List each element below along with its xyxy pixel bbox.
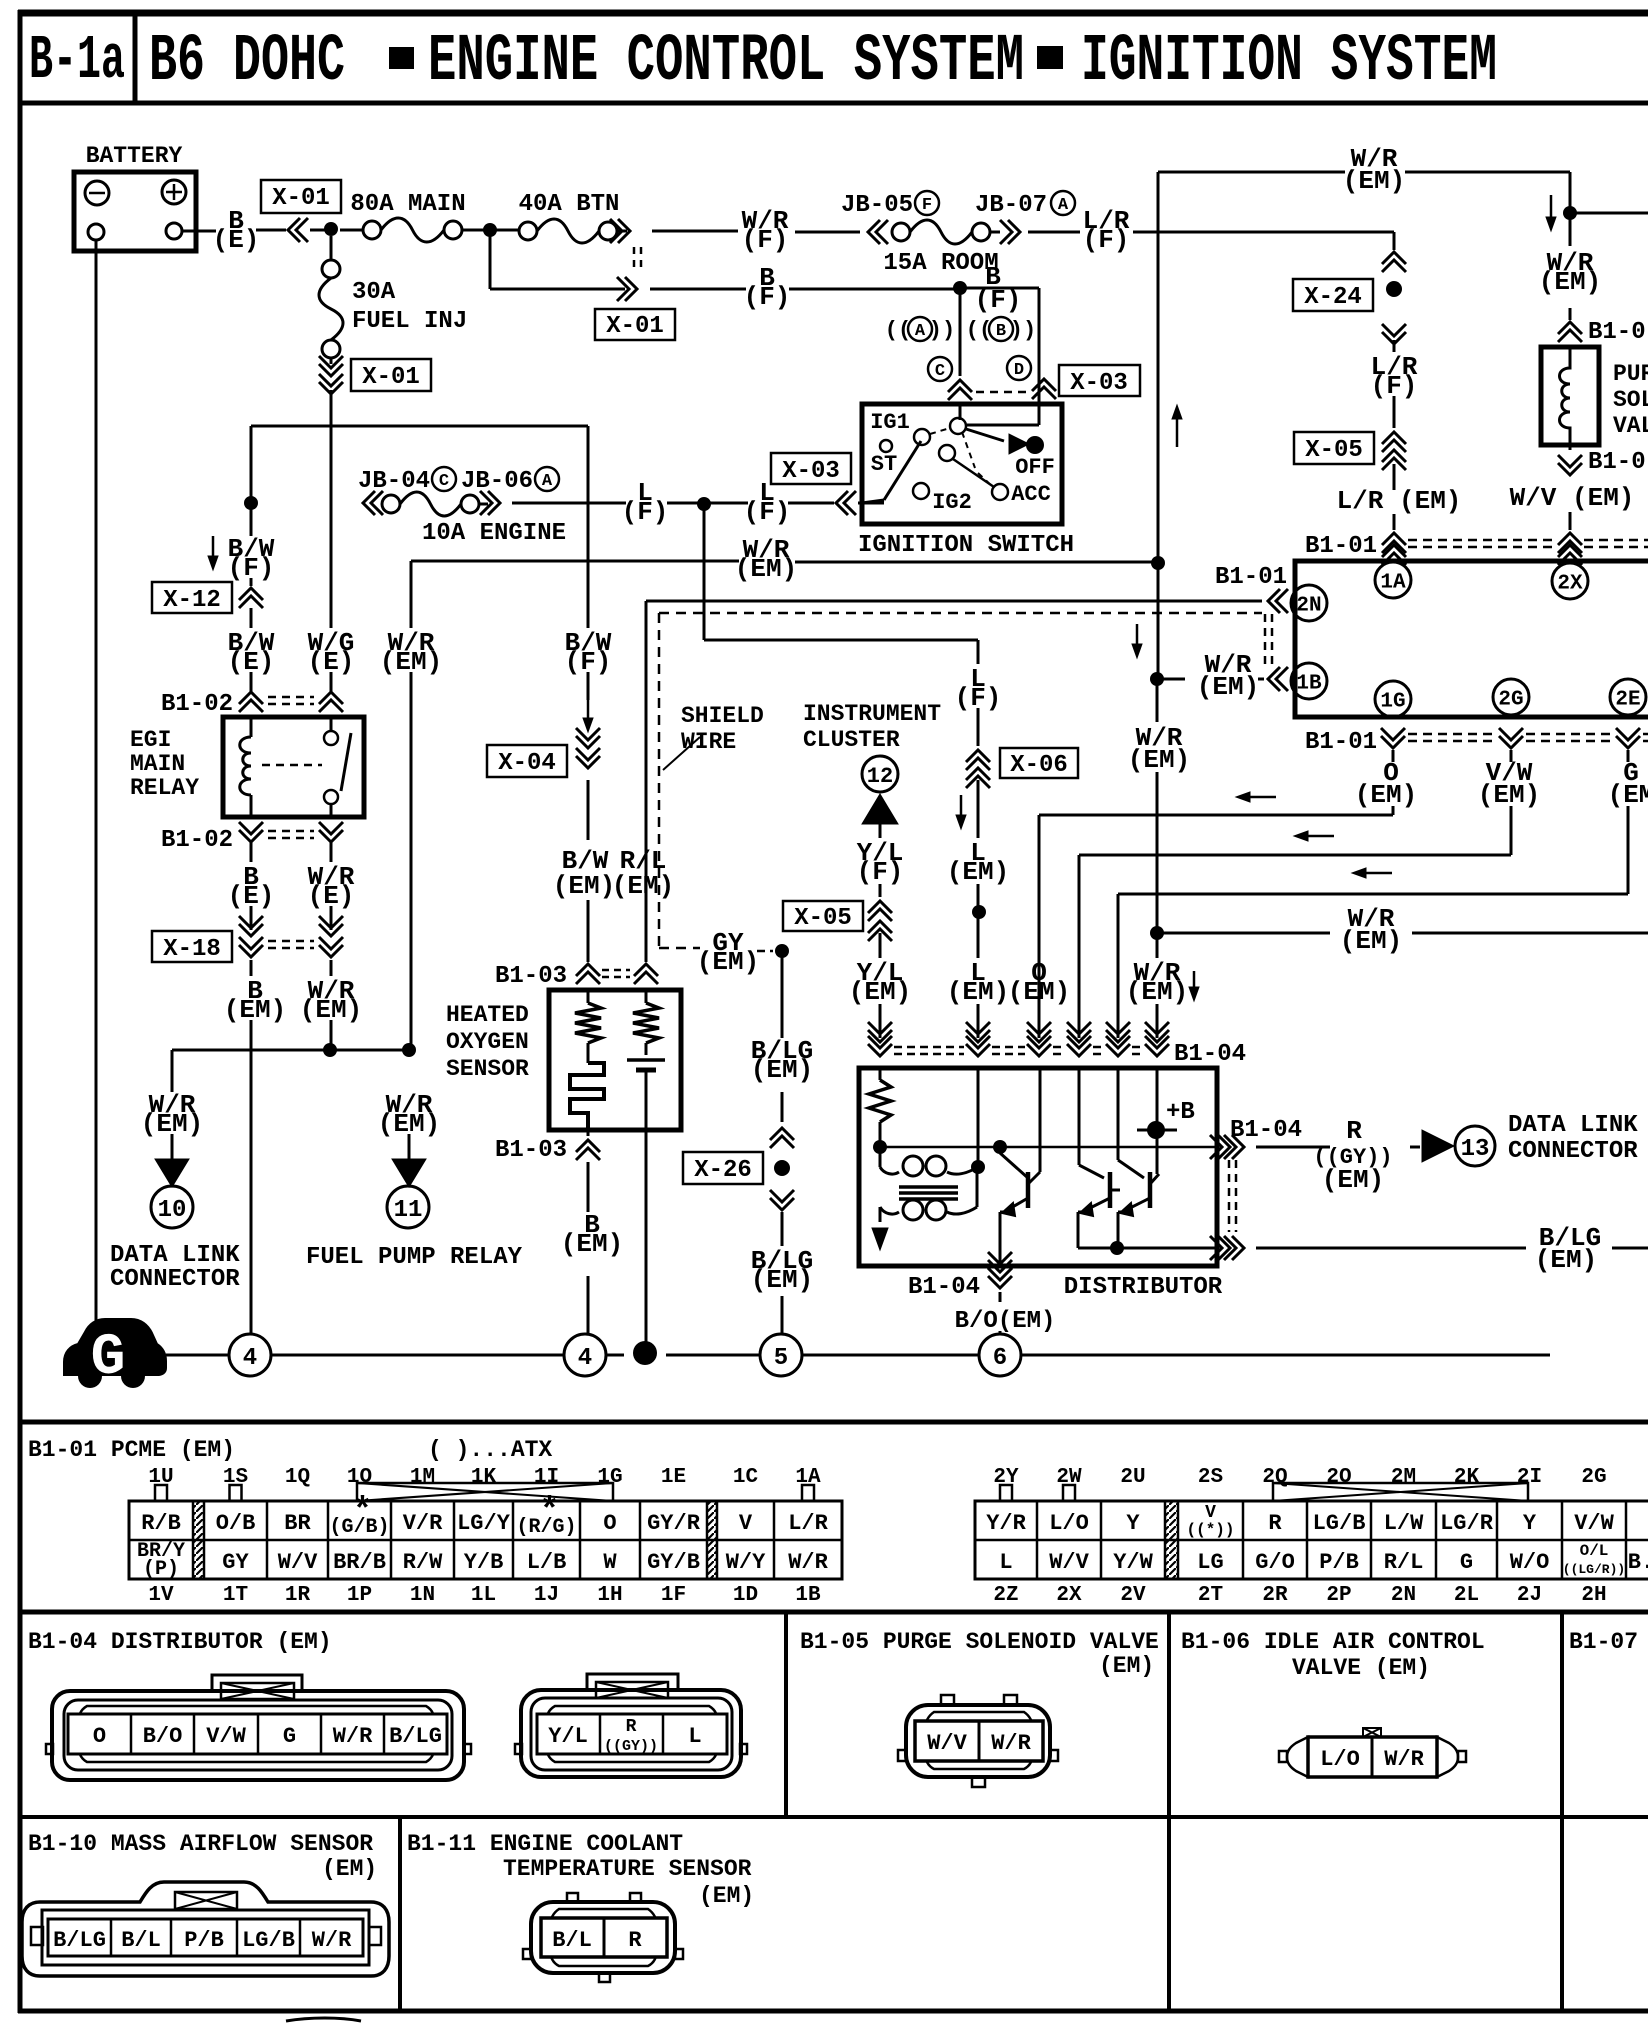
wire R/L(EM) from PCME 2N [612, 601, 1262, 962]
svg-text:6: 6 [993, 1345, 1007, 1372]
junction node distributor bus mid [993, 1140, 1007, 1154]
svg-text:10: 10 [158, 1197, 187, 1224]
svg-text:V/W: V/W [206, 1724, 246, 1749]
svg-text:2G: 2G [1498, 689, 1523, 712]
svg-text:GY/R: GY/R [647, 1511, 701, 1536]
svg-text:1E: 1E [661, 1466, 686, 1489]
wire W/R(EM) top feed [1158, 144, 1570, 231]
pin 2X [1552, 563, 1588, 599]
svg-text:BR/B: BR/B [333, 1550, 386, 1575]
svg-text:X-06: X-06 [1010, 752, 1068, 779]
connector X-18 [152, 916, 343, 963]
svg-text:1R: 1R [285, 1584, 311, 1607]
svg-text:((GY)): ((GY)) [604, 1738, 658, 1755]
svg-text:2P: 2P [1326, 1584, 1351, 1607]
fuse 30A FUEL INJ [319, 236, 467, 358]
title text [149, 25, 1497, 100]
svg-text:(F): (F) [622, 497, 669, 527]
svg-text:1N: 1N [410, 1584, 435, 1607]
svg-text:((LG/R)): ((LG/R)) [1563, 1562, 1625, 1577]
fuse 10A ENGINE JB-04/JB-06 [358, 467, 566, 547]
connector B1-05 arrows lower [1558, 445, 1646, 476]
svg-text:(EM): (EM) [1197, 672, 1259, 702]
svg-text:X-05: X-05 [1305, 437, 1363, 464]
junction node L(EM) [972, 905, 986, 919]
svg-text:B/L: B/L [121, 1928, 161, 1953]
svg-text:OFF: OFF [1015, 455, 1055, 480]
wire B/W(F) to oxygen sensor [565, 561, 612, 732]
svg-text:W/R: W/R [788, 1550, 828, 1575]
svg-text:INSTRUMENT: INSTRUMENT [803, 701, 941, 727]
svg-text:(EM): (EM) [553, 871, 615, 901]
connector X-01 on battery feed [261, 180, 341, 242]
svg-text:C: C [439, 472, 449, 491]
svg-text:2L: 2L [1454, 1584, 1479, 1607]
wire bus rectangle to 10A engine fuse [251, 426, 588, 561]
transistor Q1 igniter [1000, 1068, 1040, 1266]
svg-text:2Q: 2Q [1262, 1466, 1287, 1489]
svg-text:(EM): (EM) [1478, 780, 1540, 810]
transistor Q2 pickup [1078, 1068, 1120, 1248]
svg-text:B/L: B/L [552, 1928, 592, 1953]
distributor internal ground [872, 1228, 888, 1250]
pin 1B [1291, 663, 1327, 699]
connector B1-04 arrows R output [1210, 1117, 1302, 1159]
wire B/LG(EM) shield branch [751, 951, 813, 1122]
svg-text:1I: 1I [534, 1466, 559, 1489]
svg-text:O/B: O/B [216, 1511, 256, 1536]
svg-text:PUR: PUR [1613, 361, 1648, 387]
section header B1-05 PURGE SOLENOID VALVE [800, 1629, 1159, 1679]
battery [74, 143, 196, 251]
svg-text:)): )) [929, 318, 955, 343]
shield wire dashed screen [659, 613, 1262, 977]
svg-text:W/V: W/V [927, 1731, 967, 1756]
svg-text:1T: 1T [223, 1584, 248, 1607]
svg-text:2H: 2H [1581, 1584, 1606, 1607]
svg-text:FUEL PUMP RELAY: FUEL PUMP RELAY [306, 1244, 523, 1271]
svg-text:5: 5 [774, 1345, 788, 1372]
svg-text:G: G [91, 1326, 126, 1391]
connector X-01 label box lower [595, 309, 675, 340]
svg-text:GY: GY [222, 1550, 249, 1575]
node 13 data link connector [1455, 1112, 1638, 1166]
svg-text:B/LG: B/LG [53, 1928, 106, 1953]
connector B1-04 arrows B/LG output [1210, 1236, 1244, 1260]
svg-text:B1-10 MASS AIRFLOW SENSOR: B1-10 MASS AIRFLOW SENSOR [28, 1831, 373, 1857]
wire W/R(EM) vertical from engine bay [380, 561, 442, 1050]
ignition switch connector codes A B C D [885, 317, 1036, 381]
node 10 data link connector [110, 1186, 240, 1293]
junction node top right W/R [1563, 206, 1577, 220]
relay contact [262, 717, 351, 817]
connector B1-01 dashed link top [1305, 533, 1648, 560]
connector B1-01 arrows at 2X [1558, 533, 1582, 565]
svg-text:(EM): (EM) [1099, 1653, 1154, 1679]
svg-text:CONNECTOR: CONNECTOR [1508, 1138, 1638, 1165]
svg-text:JB-07: JB-07 [975, 192, 1047, 219]
svg-text:*: * [352, 1493, 372, 1531]
wire W/R(EM) to PCME 1B [1163, 650, 1288, 702]
ground node 5 [760, 1334, 802, 1376]
section header B1-01 PCME [28, 1437, 552, 1463]
svg-text:V: V [1205, 1503, 1216, 1523]
svg-text:1B: 1B [795, 1584, 821, 1607]
connector B1-01 dashed link at 2N 1B [1265, 614, 1272, 664]
junction node W/R at 1B [1150, 672, 1164, 686]
svg-text:2N: 2N [1391, 1584, 1416, 1607]
svg-text:LG/B: LG/B [1313, 1511, 1366, 1536]
svg-text:11: 11 [394, 1197, 423, 1224]
svg-text:1O: 1O [347, 1466, 372, 1489]
svg-text:D: D [1014, 361, 1024, 380]
svg-text:L/W: L/W [1384, 1511, 1424, 1536]
svg-text:B6 DOHC: B6 DOHC [149, 25, 345, 100]
svg-text:2X: 2X [1056, 1584, 1082, 1607]
svg-text:L: L [688, 1724, 701, 1749]
svg-text:LG/B: LG/B [242, 1928, 295, 1953]
svg-text:X-03: X-03 [1070, 370, 1128, 397]
ground node 6 [979, 1334, 1021, 1376]
svg-text:2O: 2O [1326, 1466, 1351, 1489]
wire W/G to relay [330, 672, 333, 692]
svg-text:JB-05: JB-05 [841, 192, 913, 219]
svg-text:1H: 1H [597, 1584, 622, 1607]
pin 2G [1493, 679, 1529, 715]
wire B/LG inside distributor [1117, 1247, 1217, 1250]
svg-text:X-12: X-12 [163, 587, 221, 614]
svg-text:L: L [999, 1550, 1012, 1575]
relay EGI MAIN RELAY [130, 717, 364, 817]
wire Y/L(F) [857, 824, 904, 897]
svg-text:B-1a: B-1a [29, 26, 125, 96]
svg-text:2G: 2G [1581, 1466, 1606, 1489]
svg-text:(EM): (EM) [1128, 745, 1190, 775]
wire L(EM) to distributor [947, 918, 1009, 1038]
svg-text:B/O(EM): B/O(EM) [955, 1308, 1056, 1335]
ignition switch rotor lines [862, 428, 1029, 503]
svg-text:4: 4 [243, 1345, 257, 1372]
svg-text:B1-02: B1-02 [161, 691, 233, 718]
wire L(EM) into coil node [977, 1068, 980, 1162]
svg-text:IGNITION SWITCH: IGNITION SWITCH [858, 532, 1074, 559]
svg-text:(EM): (EM) [699, 1883, 754, 1909]
purge solenoid valve [1541, 347, 1648, 445]
svg-text:Y/B: Y/B [464, 1550, 504, 1575]
svg-text:(EM): (EM) [697, 947, 759, 977]
svg-text:(EM): (EM) [947, 857, 1009, 887]
svg-text:SHIELD: SHIELD [681, 703, 764, 729]
svg-text:ACC: ACC [1011, 482, 1051, 507]
section divider lines [18, 1422, 1648, 2011]
svg-text:W/R: W/R [333, 1724, 373, 1749]
relay coil [240, 717, 251, 817]
svg-text:WIRE: WIRE [681, 729, 736, 755]
ignition switch contacts [870, 410, 1055, 515]
connector X-05 right [1294, 432, 1406, 470]
svg-text:(EM): (EM) [224, 995, 286, 1025]
shield wire callout [663, 703, 764, 770]
svg-text:X-24: X-24 [1304, 284, 1362, 311]
svg-text:A: A [1058, 196, 1069, 215]
svg-text:LG/R: LG/R [1440, 1511, 1494, 1536]
svg-text:W/Y: W/Y [726, 1550, 766, 1575]
svg-text:W/V (EM): W/V (EM) [1510, 483, 1635, 513]
svg-text:B1-07: B1-07 [1569, 1629, 1638, 1655]
connector drawing B1-04 three pin [515, 1674, 747, 1777]
wire L/R(F) down right side [1382, 232, 1406, 272]
svg-text:( )...ATX: ( )...ATX [428, 1437, 552, 1463]
svg-text:B1-05 PURGE SOLENOID VALVE: B1-05 PURGE SOLENOID VALVE [800, 1629, 1159, 1655]
ground node 4 right [564, 1334, 606, 1376]
svg-text:4: 4 [578, 1345, 592, 1372]
pin 2E [1610, 679, 1646, 715]
junction node 10A feed [244, 496, 258, 510]
wire W/R(EM) from relay to junction [300, 960, 362, 1050]
connector B1-01 arrows below pins [1305, 728, 1648, 756]
instrument cluster label [803, 701, 941, 753]
svg-text:HEATED: HEATED [446, 1002, 529, 1028]
svg-text:B1-03: B1-03 [495, 963, 567, 990]
svg-text:R: R [626, 1717, 637, 1737]
heated oxygen sensor [446, 990, 681, 1130]
svg-text:12: 12 [867, 764, 893, 789]
connector B1-02 lower [161, 822, 343, 854]
svg-text:X-26: X-26 [694, 1157, 752, 1184]
oxygen sensor heater resistor [570, 990, 604, 1130]
svg-text:B1-11 ENGINE COOLANT: B1-11 ENGINE COOLANT [407, 1831, 683, 1857]
connector drawing B1-10 five pin [22, 1882, 389, 1976]
svg-text:(EM): (EM) [612, 871, 674, 901]
connector X-03 label box right [1059, 365, 1140, 397]
junction node at 40A fuse [483, 223, 497, 237]
wire B/LG(EM) to ground bus [751, 1212, 813, 1334]
svg-text:DATA LINK: DATA LINK [1508, 1112, 1638, 1139]
wire W/R(F) [652, 206, 860, 255]
svg-text:SOL: SOL [1613, 387, 1648, 413]
wire L(F) from fuse [512, 478, 699, 527]
svg-text:B1-01: B1-01 [1215, 564, 1287, 591]
wire W/V(EM) [1510, 483, 1635, 530]
svg-text:(EM): (EM) [751, 1055, 813, 1085]
svg-text:GY/B: GY/B [647, 1550, 700, 1575]
oxygen sensor cell resistor and battery symbol [627, 990, 665, 1130]
wire B(E) from relay [228, 842, 275, 930]
svg-text:2U: 2U [1120, 1466, 1145, 1489]
svg-text:LG: LG [1197, 1550, 1223, 1575]
junction node W/R vertical [402, 1043, 416, 1057]
svg-text:V/W: V/W [1574, 1511, 1614, 1536]
svg-text:G: G [1460, 1550, 1473, 1575]
wire B/O(EM) [955, 1292, 1056, 1335]
connector X-01 on fuel inj wire [319, 356, 431, 394]
wire B/W(F) left branch [208, 509, 275, 586]
svg-text:+B: +B [1166, 1099, 1195, 1126]
svg-text:SENSOR: SENSOR [446, 1056, 529, 1082]
svg-text:O/L: O/L [1580, 1542, 1609, 1560]
junction node shield to bus [633, 1341, 657, 1365]
svg-text:O: O [93, 1724, 106, 1749]
svg-text:(F): (F) [1083, 225, 1130, 255]
svg-text:IG1: IG1 [870, 410, 910, 435]
svg-text:L/O: L/O [1049, 1511, 1089, 1536]
svg-text:(P): (P) [143, 1558, 179, 1581]
svg-text:2V: 2V [1120, 1584, 1146, 1607]
svg-text:P/B: P/B [1319, 1550, 1359, 1575]
junction node B(F) at ignition switch [953, 281, 967, 295]
svg-text:L/R: L/R [788, 1511, 828, 1536]
svg-text:(EM: (EM [1608, 780, 1648, 810]
ground bus wire [166, 1354, 1550, 1357]
wire B(F) into ignition switch [960, 262, 1039, 425]
svg-text:TEMPERATURE SENSOR: TEMPERATURE SENSOR [503, 1856, 752, 1882]
svg-text:X-01: X-01 [362, 364, 420, 391]
svg-text:W/R: W/R [1384, 1747, 1424, 1772]
title block B-1a [29, 26, 125, 96]
svg-text:X-01: X-01 [606, 313, 664, 340]
svg-text:DATA LINK: DATA LINK [110, 1242, 240, 1269]
svg-text:(F): (F) [744, 497, 791, 527]
svg-text:R: R [1268, 1511, 1282, 1536]
wire W/R(E) from relay [308, 842, 355, 930]
svg-text:80A MAIN: 80A MAIN [350, 191, 465, 218]
svg-text:(F): (F) [742, 225, 789, 255]
svg-text:B1-04: B1-04 [1230, 1117, 1302, 1144]
svg-text:L/R (EM): L/R (EM) [1337, 486, 1462, 516]
wire L/R(EM) [1337, 464, 1462, 530]
svg-text:W/V: W/V [278, 1550, 318, 1575]
svg-text:B1-0: B1-0 [1588, 449, 1646, 476]
svg-text:(EM): (EM) [1539, 267, 1601, 297]
svg-text:F: F [922, 196, 932, 215]
svg-text:W/O: W/O [1510, 1550, 1550, 1575]
wire W/R(EM) vertical to distributor [1128, 685, 1190, 927]
svg-text:1G: 1G [1380, 691, 1405, 714]
connector drawing B1-11 two pin [523, 1893, 683, 1982]
connector table B1-01 right half [975, 1501, 1648, 1579]
section header B1-10 MASS AIRFLOW SENSOR [28, 1831, 377, 1882]
svg-text:R: R [1346, 1116, 1362, 1146]
connector X-03 arrows at switch [948, 379, 1056, 400]
svg-text:(EM): (EM) [849, 977, 911, 1007]
connector B1-01 arrows at 1A [1382, 533, 1406, 565]
node 11 fuel pump relay [306, 1186, 523, 1271]
svg-text:1V: 1V [148, 1584, 174, 1607]
pin 1G [1375, 681, 1411, 717]
ignition coil [880, 1153, 978, 1222]
pin 1A [1375, 562, 1411, 598]
wire B/LG(EM) output [1256, 1223, 1648, 1275]
svg-text:O: O [603, 1511, 616, 1536]
svg-text:V: V [739, 1511, 753, 1536]
svg-text:W/R: W/R [312, 1928, 352, 1953]
junction node relay W/R [323, 1043, 337, 1057]
svg-text:1A: 1A [1380, 572, 1406, 595]
connector drawing B1-05 two pin [898, 1695, 1058, 1787]
svg-text:A: A [542, 472, 553, 491]
svg-text:R/B: R/B [141, 1511, 181, 1536]
svg-text:RELAY: RELAY [130, 775, 199, 801]
transistor Q3 output [1118, 1068, 1159, 1242]
svg-text:(EM): (EM) [735, 554, 797, 584]
svg-text:JB-06: JB-06 [461, 468, 533, 495]
ignition switch [858, 404, 1074, 559]
svg-text:15A ROOM: 15A ROOM [883, 250, 998, 277]
wire B(EM) [224, 960, 286, 1334]
svg-text:Y: Y [1523, 1511, 1537, 1536]
wire W/R(EM) stub to right edge [1576, 212, 1648, 215]
fuse 40A BTN [496, 191, 627, 243]
svg-text:(F): (F) [857, 857, 904, 887]
svg-text:1Q: 1Q [285, 1466, 310, 1489]
svg-text:Y/R: Y/R [986, 1511, 1026, 1536]
svg-text:X-18: X-18 [163, 936, 221, 963]
distributor box [859, 1068, 1217, 1266]
connector X-24 [1293, 279, 1406, 344]
svg-text:(E): (E) [213, 225, 260, 255]
svg-text:(EM): (EM) [1355, 780, 1417, 810]
svg-text:(EM): (EM) [1322, 1165, 1384, 1195]
svg-text:1F: 1F [661, 1584, 686, 1607]
svg-text:BR: BR [284, 1511, 311, 1536]
connector B1-03 upper [495, 963, 658, 990]
svg-text:(EM): (EM) [1340, 926, 1402, 956]
svg-text:P/B: P/B [184, 1928, 224, 1953]
svg-text:DISTRIBUTOR: DISTRIBUTOR [1064, 1274, 1223, 1301]
svg-text:1J: 1J [534, 1584, 559, 1607]
wire W/G from 30A fuse down to relay [330, 390, 333, 628]
ground symbol car body G [64, 1319, 166, 1391]
svg-text:R: R [628, 1928, 642, 1953]
fuse 80A MAIN [340, 191, 484, 242]
svg-text:(EM): (EM) [1126, 977, 1188, 1007]
svg-text:L/B: L/B [527, 1550, 567, 1575]
svg-text:IGNITION SYSTEM: IGNITION SYSTEM [1081, 25, 1497, 100]
svg-text:X-05: X-05 [794, 905, 852, 932]
svg-text:(EM): (EM) [1535, 1245, 1597, 1275]
connector X-26 [683, 1128, 794, 1210]
fuse 15A ROOM JB-05/JB-07 [841, 191, 1075, 277]
svg-text:X-04: X-04 [498, 750, 556, 777]
svg-text:2Z: 2Z [993, 1584, 1018, 1607]
connector X-04 [487, 728, 600, 777]
connector B1-04 dashed link right [1229, 1160, 1236, 1232]
wire L(F) to ignition switch [710, 478, 884, 527]
svg-text:V/R: V/R [403, 1511, 443, 1536]
wire W/R(EM) to data link connector 10 [141, 1090, 203, 1187]
svg-text:B/O: B/O [143, 1724, 183, 1749]
wire W/R(EM) branch to right edge [1163, 904, 1648, 1001]
svg-text:2T: 2T [1198, 1584, 1223, 1607]
svg-text:BATTERY: BATTERY [86, 143, 183, 169]
svg-text:1L: 1L [471, 1584, 496, 1607]
svg-text:B1-01: B1-01 [1305, 729, 1377, 756]
svg-text:(EM): (EM) [561, 1229, 623, 1259]
junction node GY to B/LG [775, 944, 789, 958]
pin 2N [1215, 564, 1327, 621]
svg-text:1M: 1M [410, 1466, 435, 1489]
svg-text:2M: 2M [1391, 1466, 1416, 1489]
svg-text:CONNECTOR: CONNECTOR [110, 1266, 240, 1293]
svg-text:2N: 2N [1296, 595, 1321, 618]
wire shield drain to ground bus [645, 1130, 648, 1345]
svg-text:1P: 1P [347, 1584, 372, 1607]
junction node coil secondary [971, 1160, 985, 1174]
svg-text:EGI: EGI [130, 727, 171, 753]
svg-text:1B: 1B [1296, 673, 1322, 696]
svg-text:13: 13 [1461, 1136, 1490, 1163]
connector B1-02 upper [161, 691, 343, 718]
